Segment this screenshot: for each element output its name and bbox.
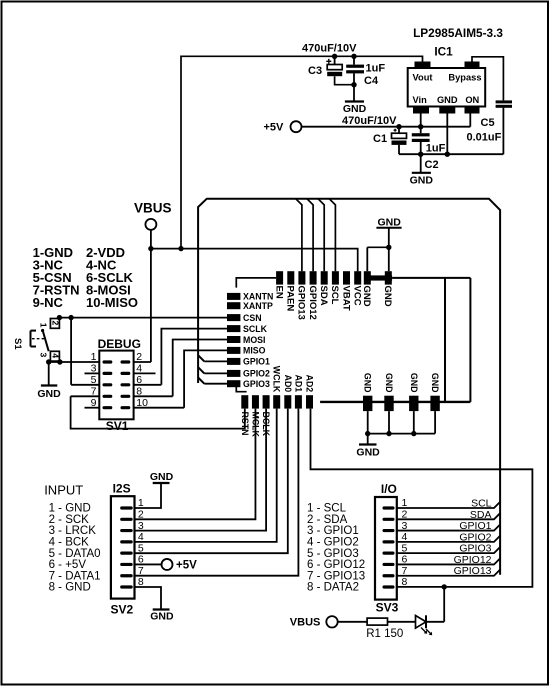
svg-text:9-NC: 9-NC bbox=[33, 295, 64, 310]
svg-text:8 - GND: 8 - GND bbox=[49, 582, 91, 594]
svg-text:GND: GND bbox=[410, 175, 434, 187]
svg-text:GND: GND bbox=[356, 447, 380, 459]
svg-text:GND: GND bbox=[430, 373, 440, 393]
svg-text:AD2: AD2 bbox=[305, 375, 315, 393]
svg-text:5: 5 bbox=[138, 542, 144, 554]
svg-text:C3: C3 bbox=[308, 65, 322, 77]
svg-text:GND: GND bbox=[361, 286, 372, 307]
svg-text:GND: GND bbox=[343, 103, 367, 115]
svg-text:ON: ON bbox=[465, 95, 479, 105]
svg-text:2: 2 bbox=[50, 321, 60, 326]
svg-text:AD1: AD1 bbox=[293, 375, 303, 393]
svg-text:8: 8 bbox=[402, 576, 408, 588]
svg-text:GND: GND bbox=[363, 373, 373, 393]
svg-text:GPIO13: GPIO13 bbox=[454, 565, 492, 577]
svg-text:3: 3 bbox=[138, 520, 144, 532]
svg-text:6 - +5V: 6 - +5V bbox=[49, 559, 87, 571]
svg-text:C2: C2 bbox=[425, 159, 439, 171]
svg-text:LP2985AIM5-3.3: LP2985AIM5-3.3 bbox=[413, 26, 503, 40]
svg-text:GND: GND bbox=[150, 611, 174, 623]
svg-text:1 - SCL: 1 - SCL bbox=[307, 503, 347, 515]
svg-text:DEBUG: DEBUG bbox=[98, 337, 141, 351]
svg-text:4: 4 bbox=[50, 353, 60, 358]
svg-text:SV2: SV2 bbox=[111, 603, 134, 617]
svg-text:Vout: Vout bbox=[413, 73, 433, 83]
svg-text:SDA: SDA bbox=[318, 286, 329, 306]
svg-text:EN: EN bbox=[273, 286, 284, 299]
svg-text:MISO: MISO bbox=[243, 346, 266, 356]
svg-text:SCL: SCL bbox=[329, 286, 340, 305]
svg-text:SCL: SCL bbox=[471, 498, 492, 510]
svg-text:GND: GND bbox=[437, 95, 458, 105]
svg-text:GND: GND bbox=[37, 388, 61, 400]
svg-text:VBUS: VBUS bbox=[290, 617, 321, 629]
svg-text:R1 150: R1 150 bbox=[366, 628, 403, 640]
svg-text:SV1: SV1 bbox=[106, 419, 129, 433]
svg-text:GPIO2: GPIO2 bbox=[243, 369, 270, 379]
svg-text:3: 3 bbox=[39, 353, 49, 358]
svg-text:GND: GND bbox=[384, 373, 394, 393]
svg-text:Bypass: Bypass bbox=[448, 73, 481, 83]
svg-text:GND: GND bbox=[378, 217, 402, 229]
svg-text:C4: C4 bbox=[364, 75, 379, 87]
svg-text:VCC: VCC bbox=[352, 286, 363, 306]
svg-text:2: 2 bbox=[138, 508, 144, 520]
svg-text:VBUS: VBUS bbox=[134, 201, 172, 216]
svg-text:+5V: +5V bbox=[264, 122, 285, 134]
svg-text:10-MISO: 10-MISO bbox=[86, 295, 138, 310]
svg-text:SCLK: SCLK bbox=[243, 324, 268, 334]
svg-text:7: 7 bbox=[138, 565, 144, 577]
svg-text:5 - GPIO3: 5 - GPIO3 bbox=[307, 548, 359, 560]
svg-text:GND: GND bbox=[409, 373, 419, 393]
svg-text:VBAT: VBAT bbox=[340, 286, 351, 311]
svg-text:SV3: SV3 bbox=[376, 601, 399, 615]
svg-text:3 - GPIO1: 3 - GPIO1 bbox=[307, 525, 359, 537]
svg-text:GPIO3: GPIO3 bbox=[243, 379, 270, 389]
svg-text:C5: C5 bbox=[481, 117, 495, 129]
svg-text:1: 1 bbox=[39, 323, 49, 328]
svg-text:6 - GPIO12: 6 - GPIO12 bbox=[307, 559, 365, 571]
svg-text:1 - GND: 1 - GND bbox=[49, 503, 91, 515]
svg-text:470uF/10V: 470uF/10V bbox=[342, 115, 397, 127]
svg-text:1uF: 1uF bbox=[366, 63, 386, 75]
svg-text:+5V: +5V bbox=[176, 559, 197, 571]
svg-text:CSN: CSN bbox=[243, 313, 262, 323]
svg-text:470uF/10V: 470uF/10V bbox=[302, 43, 357, 55]
svg-text:Vin: Vin bbox=[413, 95, 428, 105]
svg-text:I2S: I2S bbox=[113, 482, 131, 496]
svg-text:GND: GND bbox=[150, 471, 174, 483]
svg-text:GPIO3: GPIO3 bbox=[459, 543, 491, 555]
svg-text:SDA: SDA bbox=[470, 509, 492, 521]
svg-text:3 - LRCK: 3 - LRCK bbox=[49, 525, 97, 537]
svg-text:XANTP: XANTP bbox=[243, 301, 273, 311]
svg-text:INPUT: INPUT bbox=[44, 483, 83, 498]
svg-text:I/O: I/O bbox=[381, 482, 397, 496]
svg-text:S1: S1 bbox=[12, 338, 23, 350]
svg-text:0.01uF: 0.01uF bbox=[467, 132, 502, 144]
svg-text:PAEN: PAEN bbox=[285, 286, 296, 312]
svg-text:4: 4 bbox=[138, 531, 144, 543]
svg-text:GND: GND bbox=[382, 286, 393, 307]
svg-text:4 - GPIO2: 4 - GPIO2 bbox=[307, 536, 359, 548]
svg-text:GPIO1: GPIO1 bbox=[243, 357, 270, 367]
svg-text:GPIO13: GPIO13 bbox=[296, 286, 307, 320]
svg-text:1uF: 1uF bbox=[426, 143, 446, 155]
svg-text:GPIO12: GPIO12 bbox=[307, 286, 318, 320]
svg-text:4 - BCK: 4 - BCK bbox=[49, 536, 90, 548]
svg-text:2 - SDA: 2 - SDA bbox=[307, 514, 348, 526]
svg-text:WCLK: WCLK bbox=[272, 366, 282, 393]
svg-text:AD0: AD0 bbox=[283, 375, 293, 393]
svg-text:IC1: IC1 bbox=[434, 45, 453, 59]
svg-text:GPIO2: GPIO2 bbox=[459, 531, 491, 543]
svg-text:7 - GPIO13: 7 - GPIO13 bbox=[307, 570, 365, 582]
svg-text:C1: C1 bbox=[373, 133, 387, 145]
svg-text:5 - DATA0: 5 - DATA0 bbox=[49, 548, 101, 560]
svg-text:2 - SCK: 2 - SCK bbox=[49, 514, 90, 526]
svg-text:GPIO1: GPIO1 bbox=[459, 520, 491, 532]
svg-text:8 - DATA2: 8 - DATA2 bbox=[307, 582, 359, 594]
svg-text:7 - DATA1: 7 - DATA1 bbox=[49, 570, 101, 582]
svg-text:MOSI: MOSI bbox=[243, 335, 265, 345]
svg-text:GPIO12: GPIO12 bbox=[454, 554, 492, 566]
